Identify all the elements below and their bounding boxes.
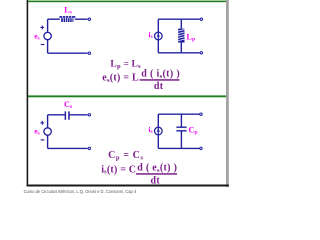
wire: top left segment — [48, 114, 65, 116]
wire: bottom — [158, 52, 200, 54]
plus sign — [40, 122, 44, 123]
frame right border (shadow) — [226, 0, 229, 187]
voltage source e_s (bottom) — [44, 128, 51, 135]
capacitor C_p plates — [176, 127, 186, 128]
wire: top — [158, 113, 200, 115]
wire: capacitor branch stubs — [180, 114, 182, 127]
plus sign — [40, 27, 44, 28]
fraction bar — [140, 79, 180, 81]
svg-text:Lp = Ls: Lp = Ls — [110, 60, 141, 70]
terminal bottom — [200, 52, 202, 54]
svg-text:dt: dt — [151, 176, 161, 187]
wire: bottom wire — [48, 52, 88, 54]
terminal bottom — [200, 147, 202, 149]
svg-text:is(t) = C: is(t) = C — [101, 164, 136, 175]
svg-text:dt: dt — [154, 81, 164, 92]
wire: left branch vertical — [47, 115, 49, 128]
svg-text:Curso de Circuitos Elétricos,: Curso de Circuitos Elétricos, L.Q. Orsin… — [24, 189, 137, 194]
terminal top — [200, 18, 202, 20]
terminal top — [88, 114, 90, 116]
wire: left branch vertical — [47, 19, 49, 32]
wire: inductor branch stubs — [180, 19, 182, 28]
middle separator green line — [28, 95, 226, 97]
wire: left branch through current source — [157, 19, 159, 53]
terminal bottom — [88, 147, 90, 149]
minus sign — [41, 139, 45, 140]
wire: top right segment — [75, 18, 88, 20]
wire: left branch through current source — [157, 114, 159, 148]
terminal bottom — [88, 52, 90, 54]
fraction bar — [136, 173, 177, 175]
terminal top — [88, 18, 90, 20]
wire: top left segment — [48, 18, 60, 20]
capacitor C_s plates — [65, 111, 67, 119]
wire: bottom wire — [48, 147, 88, 149]
inductor L_s body — [59, 16, 75, 22]
wire: top — [158, 18, 200, 20]
frame left border — [27, 0, 29, 186]
svg-text:Cp = Cs: Cp = Cs — [108, 150, 144, 161]
voltage source e_s (top) — [44, 32, 51, 39]
wire: top right segment — [70, 114, 88, 116]
frame bottom border — [27, 185, 229, 187]
minus sign — [41, 44, 45, 45]
current source i_s (top) — [155, 32, 163, 40]
frame top green line — [28, 1, 226, 3]
inductor L_p coil — [178, 29, 184, 43]
terminal top — [200, 113, 202, 115]
current source i_s (bottom) — [155, 127, 163, 135]
wire: bottom — [158, 147, 200, 149]
